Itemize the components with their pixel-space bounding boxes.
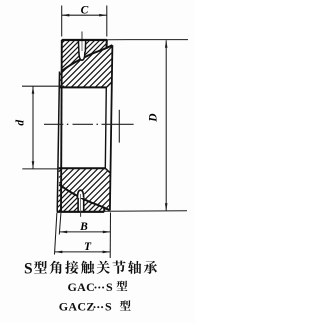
svg-text:GACZ: GACZ (59, 299, 95, 313)
wire: outer/inner ring left face (full height) (60, 40, 63, 212)
wire: top lubrication slot right wall (84, 40, 86, 52)
wire: outer ring right face (top section) (106, 40, 108, 49)
wire: inner ring left face second silhouette line (57, 72, 59, 212)
wire: oil hole centerline tick below bottom face (80, 194, 82, 212)
wire: C dimension left extension line (61, 6, 63, 37)
svg-text:S: S (24, 260, 33, 277)
wire: top face extension line to D dimension (107, 39, 188, 41)
node hatching outer ring bottom-left block (58, 184, 61, 187)
node T arrow left (55, 251, 63, 254)
wire: B dimension line (59, 231, 110, 233)
wire: d dimension bottom extension line (22, 168, 57, 170)
wire: d dimension top extension line (22, 85, 64, 87)
svg-text:S: S (105, 299, 112, 313)
node B arrow right (103, 231, 111, 234)
wire: T dimension left extension line (55, 213, 57, 255)
wire: top lubrication slot left wall (77, 40, 80, 52)
wire: bottom lubrication slot right wall (83, 197, 85, 212)
svg-text:D: D (148, 113, 160, 123)
wire: B/T shared right extension line (109, 213, 111, 259)
wire: inner ring right face line (full height) (110, 45, 113, 210)
wire: T dimension line (55, 251, 111, 253)
wire: sphere silhouette arc top section (62, 45, 113, 71)
svg-text:C: C (81, 5, 89, 17)
svg-text:B: B (79, 221, 88, 233)
wire: bore-edge silhouette line right side (105, 87, 106, 168)
wire: top oil hole dome (79, 51, 85, 60)
wire: bottom outer face line (57, 211, 104, 213)
node B arrow left (60, 231, 68, 234)
node C arrow left (62, 14, 70, 17)
node C arrow right (99, 14, 107, 17)
node d arrow down (32, 161, 35, 169)
wire: bottom lubrication slot left wall (77, 197, 79, 212)
wire: outer ring right face (bottom section) (103, 207, 105, 212)
wire: bottom oil hole dome (77, 190, 83, 198)
wire: C dimension right extension line (106, 6, 108, 37)
wire: d dimension line (32, 86, 34, 169)
wire: oil hole centerline tick above top face (81, 32, 83, 41)
node T arrow right (103, 251, 111, 254)
wire: bore chamfer bottom-right (105, 168, 110, 173)
node hatching outer ring top-right block (86, 40, 91, 45)
svg-text:T: T (84, 241, 92, 253)
node D arrow down (165, 203, 168, 211)
svg-text:d: d (15, 120, 27, 126)
wire: bore line top section (59, 86, 106, 88)
node hatching outer ring top-left block (62, 40, 65, 43)
node hatching inner ring bottom section (59, 168, 63, 172)
node D arrow up (165, 40, 168, 48)
wire: D dimension line (165, 40, 167, 211)
svg-text:GAC: GAC (68, 280, 96, 294)
wire: C dimension line (62, 14, 107, 16)
wire: horizontal centerline dash-dot (44, 123, 63, 125)
svg-text:S: S (106, 280, 113, 294)
wire: bore chamfer top-right (106, 82, 111, 87)
node hatching outer ring bottom-right block (84, 200, 86, 202)
wire: bore line bottom section (59, 167, 106, 169)
wire: sphere silhouette arc bottom section (59, 185, 110, 211)
wire: sphere center vertical tick (118, 110, 120, 143)
node hatching inner ring top section (60, 67, 68, 75)
wire: top outer face line (62, 39, 107, 41)
wire: B dimension left extension line (59, 213, 61, 235)
wire: bottom face extension line to D dimension (104, 210, 187, 213)
node d arrow up (32, 86, 35, 94)
